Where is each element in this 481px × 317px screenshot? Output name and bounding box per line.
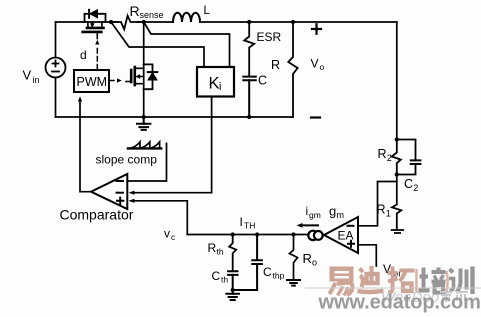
svg-text:R: R [208, 241, 217, 255]
watermark red char di [358, 266, 384, 292]
capacitor C2 parallel branch [397, 140, 421, 175]
svg-text:i: i [219, 81, 221, 93]
svg-text:R: R [130, 3, 140, 19]
node Rth junction [231, 232, 235, 236]
label Cthp [263, 265, 285, 281]
node switch junction [142, 20, 146, 24]
svg-text:TH: TH [244, 221, 255, 231]
label Vo [311, 57, 325, 73]
wire top rail right (L to corner) [200, 21, 397, 23]
svg-text:o: o [320, 62, 325, 72]
wire duty dashed arrow to Q1 gate [95, 40, 99, 69]
label gm [329, 204, 344, 221]
watermark red char yi [330, 267, 354, 282]
node switch-left junction [109, 20, 113, 24]
label Vref [383, 262, 402, 279]
svg-text:C: C [263, 265, 272, 279]
label Rth [208, 241, 224, 257]
block Ki current-sense gain [197, 67, 234, 97]
arrow igm [302, 224, 318, 226]
wire sense tap B (switch node to Ki) [144, 22, 230, 67]
svg-text:Comparator: Comparator [60, 207, 134, 223]
svg-text:slope comp: slope comp [96, 153, 158, 167]
resistor Rsense [112, 16, 144, 30]
op-amp comparator [91, 174, 127, 209]
label Vo plus [312, 24, 321, 34]
svg-text:K: K [209, 75, 220, 93]
resistor R2 [392, 140, 401, 175]
svg-text:V: V [311, 57, 319, 71]
wire mid junction down through tap to R1 [396, 175, 398, 205]
svg-text:m: m [337, 210, 345, 220]
svg-text:o: o [312, 258, 317, 268]
svg-text:gm: gm [309, 210, 321, 220]
ground Ro [287, 280, 300, 286]
transistor Q1 PMOS high-side with body diode [83, 10, 106, 39]
op-amp EA error amplifier [324, 217, 358, 253]
label Ro [303, 251, 318, 268]
watermark yaku blob [440, 291, 468, 302]
capacitor C [243, 77, 256, 117]
svg-text:R: R [378, 147, 387, 161]
watermark red char tuo [388, 267, 415, 293]
svg-text:C: C [212, 269, 221, 283]
wire bottom rail [56, 116, 294, 118]
watermark gray char xun [449, 267, 473, 295]
watermark gray char pei [419, 268, 446, 293]
current source igm [308, 231, 322, 240]
svg-text:EA: EA [338, 229, 354, 243]
svg-text:PWM: PWM [77, 75, 108, 89]
svg-text:c: c [171, 232, 176, 242]
resistor R1 [392, 205, 401, 230]
svg-text:R: R [303, 251, 312, 266]
wire Ki output to comparator [131, 97, 212, 193]
svg-text:1: 1 [386, 209, 391, 219]
svg-text:C: C [258, 74, 267, 88]
svg-text:R: R [377, 203, 386, 217]
wire EA inverting input to feedback node [358, 182, 397, 226]
label igm [306, 204, 321, 220]
capacitor C (output cap) branch with ESR [247, 20, 251, 24]
label ITH [240, 215, 256, 231]
resistor ESR [244, 22, 254, 77]
wire top rail mid (Rsense to L) [137, 21, 173, 23]
svg-text:th: th [217, 247, 224, 257]
svg-text:R: R [271, 58, 280, 72]
sawtooth slope waveform icon [128, 142, 161, 149]
inductor L [173, 13, 200, 22]
svg-text:sense: sense [140, 10, 164, 20]
node ground junction [142, 115, 146, 119]
voltage source Vin [46, 22, 66, 117]
svg-text:th: th [221, 275, 228, 285]
svg-text:L: L [204, 5, 211, 17]
node feedback mid junction [395, 172, 399, 176]
resistor Rth [229, 235, 236, 272]
label Vo minus [311, 116, 320, 118]
svg-text:i: i [306, 204, 309, 218]
arrowhead into comparator minus [129, 191, 135, 195]
capacitor Cthp [233, 235, 262, 291]
svg-text:d: d [80, 48, 87, 62]
wire switch node down to Q2 [143, 22, 145, 64]
svg-text:www.edatop.com: www.edatop.com [318, 292, 481, 314]
svg-text:C: C [404, 177, 413, 191]
svg-text:thp: thp [273, 271, 285, 281]
svg-text:I: I [240, 215, 243, 229]
label Rsense [130, 3, 164, 20]
ground comp [226, 290, 239, 300]
watermark red fringe bars [417, 269, 448, 293]
wire top rail left (Vin to Rsense) [56, 21, 119, 23]
svg-text:v: v [164, 227, 170, 241]
wire vc rail to EA [187, 234, 307, 236]
capacitor Cth [228, 271, 237, 290]
svg-text:in: in [33, 75, 40, 85]
node ITH junction [291, 232, 295, 236]
node feedback top junction [395, 137, 399, 141]
ground R1 [392, 230, 404, 233]
transistor Q2 NMOS low-side with body diode [126, 64, 157, 89]
watermark faint line [305, 287, 481, 289]
wire Q2 source to ground rail [143, 89, 145, 117]
wire EA noninverting input to Vref [358, 245, 376, 266]
svg-text:g: g [329, 204, 336, 219]
svg-text:2: 2 [413, 183, 418, 193]
ground power [137, 117, 150, 130]
wire PWM dashed arrow to Q2 gate [110, 78, 122, 82]
wire vc to comparator plus input [131, 201, 187, 235]
label vc [164, 227, 176, 243]
resistor Ro [289, 235, 297, 280]
node Cthp junction [255, 232, 259, 236]
svg-text:ESR: ESR [257, 30, 282, 44]
wire comparator output to PWM [80, 101, 91, 192]
label Vin [23, 68, 40, 85]
svg-text:2: 2 [387, 153, 392, 163]
label Cth [212, 269, 229, 285]
resistor R load [291, 20, 295, 24]
wire slope comp to comparator top input [127, 143, 166, 181]
node comp ground junction [231, 288, 235, 292]
wire right vertical to feedback [396, 22, 398, 140]
wire sense tap A (left of Rsense to Ki) [111, 22, 204, 67]
PWM block [74, 70, 109, 92]
svg-text:V: V [23, 68, 32, 83]
